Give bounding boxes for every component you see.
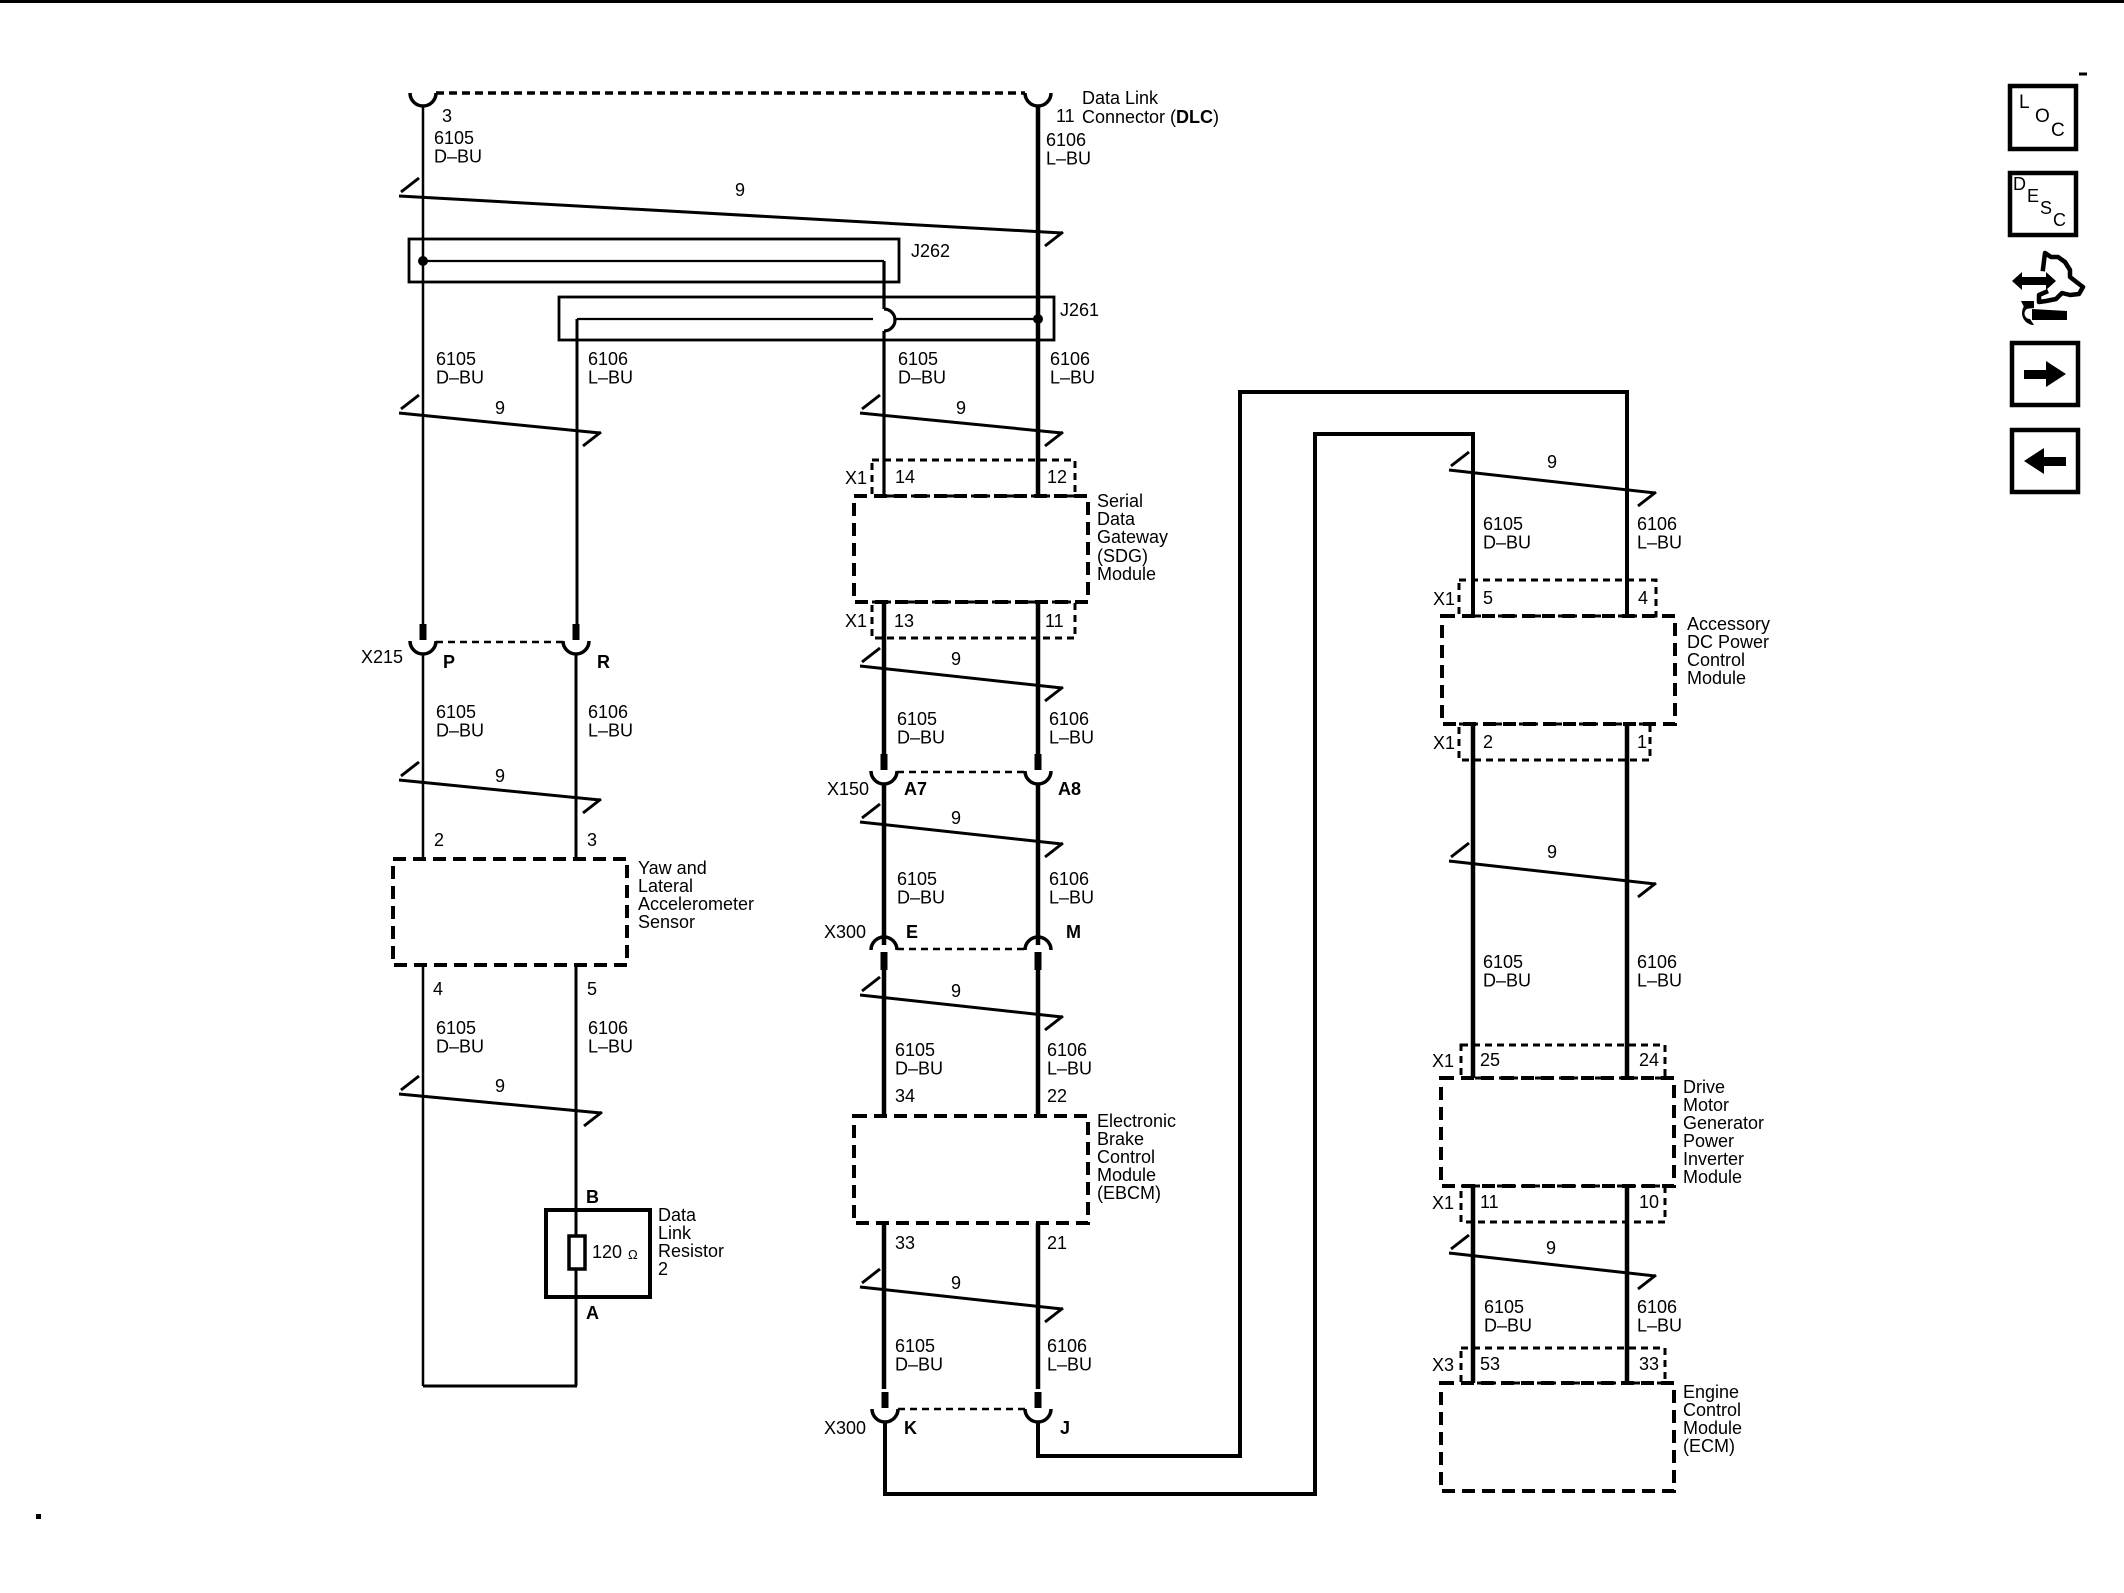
svg-text:6106: 6106 [1049,869,1089,889]
label Serial Data Gateway (SDG) Module [1097,491,1168,584]
module Yaw and Lateral Accelerometer Sensor [393,859,627,965]
label 6105 D-BU (below X150) [897,869,945,908]
svg-text:4: 4 [433,979,443,999]
X300 pin M [1066,922,1081,942]
ECM pin 53 [1480,1354,1500,1374]
svg-text:D–BU: D–BU [1483,971,1531,991]
module Serial Data Gateway (SDG) [854,496,1088,602]
X150 pin A8 [1058,779,1081,799]
svg-text:R: R [597,652,610,672]
svg-text:Module: Module [1097,1165,1156,1185]
SDG pin 12 [1047,467,1067,487]
svg-text:A7: A7 [904,779,927,799]
svg-text:9: 9 [1547,452,1557,472]
svg-text:6106: 6106 [1049,709,1089,729]
svg-text:L–BU: L–BU [1637,533,1682,553]
SDG pin 11 [1045,611,1064,631]
twisted pair symbol (below SDG) [860,648,1063,701]
X150 pin A7 [904,779,927,799]
svg-text:6106: 6106 [1047,1336,1087,1356]
svg-text:X1: X1 [845,468,867,488]
svg-text:C: C [2051,120,2065,141]
svg-text:X3: X3 [1432,1355,1454,1375]
X215 pin R [597,652,610,672]
twisted pair symbol (right col bottom) [1449,1235,1656,1289]
EBCM pin 34 [895,1086,915,1106]
svg-text:9: 9 [1547,842,1557,862]
twisted pair symbol (below X150) [860,804,1063,857]
svg-text:10: 10 [1639,1192,1659,1212]
svg-text:2: 2 [434,830,444,850]
X300 pin E [906,922,918,942]
svg-text:6105: 6105 [895,1336,935,1356]
wire 6106 from splice J261 to X215 pin R [576,319,579,624]
label 6105 D-BU (below X215) [436,702,484,741]
label Drive Motor Generator Power Inverter Module [1683,1077,1764,1187]
label 6105 D-BU (below yaw) [436,1018,484,1057]
svg-text:2: 2 [658,1259,668,1279]
svg-text:Engine: Engine [1683,1382,1739,1402]
svg-text:11: 11 [1480,1192,1499,1212]
svg-text:Electronic: Electronic [1097,1111,1176,1131]
icon wiring repair (arrows and wrench) [2012,253,2083,325]
svg-text:L–BU: L–BU [1047,1059,1092,1079]
yaw sensor pin 2 [434,830,444,850]
svg-text:O: O [2035,106,2050,127]
label 6106 L-BU (above EBCM) [1047,1040,1092,1079]
Drive Motor pin row X1 (25/24) [1461,1045,1665,1078]
svg-text:Resistor: Resistor [658,1241,724,1261]
label 6106 L-BU (mid col) [1050,349,1095,388]
wire 6106 Drive Motor pin 10 to ECM pin 33 [1625,1186,1630,1383]
svg-text:Connector (DLC): Connector (DLC) [1082,107,1219,127]
svg-text:Accessory: Accessory [1687,614,1770,634]
X300 pin K [904,1418,917,1438]
svg-text:D–BU: D–BU [1484,1316,1532,1336]
label X1 (Drive Motor bottom) [1432,1193,1454,1213]
svg-text:Module: Module [1683,1418,1742,1438]
Drive Motor pin row X1 (11/10) [1461,1186,1665,1222]
icon DESC box [2010,173,2076,235]
label X1 (Accessory bottom) [1433,733,1455,753]
DLC pin 11 [1056,106,1075,126]
svg-text:D–BU: D–BU [434,147,482,167]
Accessory pin row X1 (5/4) [1459,580,1656,616]
svg-text:6106: 6106 [1046,130,1086,150]
svg-text:Control: Control [1683,1400,1741,1420]
wire 6106 Accessory pin 1 to Drive Motor pin 24 [1625,724,1630,1078]
label X150 [827,779,869,799]
svg-text:Drive: Drive [1683,1077,1725,1097]
label 9 (left col upper pair) [495,398,505,418]
wire 6106 SDG pin 11 to X150 A8 [1036,602,1041,755]
svg-text:11: 11 [1056,106,1075,126]
label 120 ohm [592,1242,638,1262]
svg-text:L–BU: L–BU [1050,368,1095,388]
svg-text:J: J [1060,1418,1070,1438]
resistor R 120 ohm (Data Link Resistor) [546,1210,650,1297]
svg-text:11: 11 [1045,611,1064,631]
connector X300 (K/J) [872,1392,1051,1422]
wire 6105 X215 P to yaw sensor pin 2 [422,654,425,859]
svg-text:9: 9 [951,1273,961,1293]
svg-text:J262: J262 [911,241,950,261]
label X300 (E/M) [824,922,866,942]
module Electronic Brake Control Module (EBCM) [854,1116,1088,1223]
svg-text:X1: X1 [1432,1051,1454,1071]
module Accessory DC Power Control Module [1442,616,1675,724]
svg-text:J261: J261 [1060,300,1099,320]
svg-text:53: 53 [1480,1354,1500,1374]
label 9 (right col mid) [1547,842,1557,862]
Drive Motor pin 24 [1639,1050,1659,1070]
svg-text:(SDG): (SDG) [1097,546,1148,566]
svg-text:6105: 6105 [1483,952,1523,972]
svg-text:Module: Module [1097,564,1156,584]
X215 pin P [443,652,455,672]
svg-text:D–BU: D–BU [436,1037,484,1057]
svg-text:9: 9 [956,398,966,418]
svg-text:Control: Control [1687,650,1745,670]
label 6106 L-BU (right col top) [1637,514,1682,553]
svg-text:X1: X1 [1433,733,1455,753]
wire 6105 EBCM pin 33 to X300 K [882,1223,887,1389]
svg-text:Power: Power [1683,1131,1734,1151]
yaw sensor pin 5 [587,979,597,999]
svg-text:S: S [2040,198,2052,218]
svg-text:6106: 6106 [588,702,628,722]
label X1 (Accessory top) [1433,589,1455,609]
svg-text:L–BU: L–BU [1049,728,1094,748]
wire 6105 X300 K to Accessory module pin 5 (bus route) [885,434,1473,1494]
svg-text:13: 13 [894,611,914,631]
svg-text:21: 21 [1047,1233,1067,1253]
wire 6106 yaw pin 5 to resistor [575,965,578,1386]
svg-text:A: A [586,1303,599,1323]
svg-text:Module: Module [1683,1167,1742,1187]
SDG pin 13 [894,611,914,631]
svg-text:Motor: Motor [1683,1095,1729,1115]
svg-text:6105: 6105 [436,349,476,369]
svg-text:Yaw and: Yaw and [638,858,707,878]
connector DLC (Data Link Connector) outline [410,93,1051,106]
svg-text:1: 1 [1637,732,1647,752]
svg-text:Generator: Generator [1683,1113,1764,1133]
label X1 (Drive Motor top) [1432,1051,1454,1071]
svg-text:D–BU: D–BU [436,721,484,741]
svg-text:34: 34 [895,1086,915,1106]
svg-text:6106: 6106 [1637,1297,1677,1317]
label X300 (K/J) [824,1418,866,1438]
svg-text:6105: 6105 [897,709,937,729]
connector X150 [871,754,1051,784]
SDG pin row X1 (13/11) [872,602,1075,638]
svg-text:P: P [443,652,455,672]
svg-text:33: 33 [895,1233,915,1253]
svg-text:6106: 6106 [588,349,628,369]
wire 6106 from DLC pin 11 through J261 to SDG pin 12 [1036,106,1041,496]
label 6106 L-BU (right col mid) [1637,952,1682,991]
svg-text:9: 9 [495,766,505,786]
yaw sensor pin 3 [587,830,597,850]
svg-text:Brake: Brake [1097,1129,1144,1149]
svg-text:L: L [2019,92,2030,113]
label X215 [361,647,403,667]
svg-text:Link: Link [658,1223,692,1243]
label 6106 L-BU (left col) [588,349,633,388]
splice J262 [409,239,899,282]
twisted pair symbol (right col top) [1449,452,1656,506]
svg-text:D–BU: D–BU [897,888,945,908]
svg-text:D: D [2013,174,2026,194]
svg-text:6105: 6105 [434,128,474,148]
label J262 [911,241,950,261]
Accessory pin 2 [1483,732,1493,752]
svg-text:9: 9 [735,180,745,200]
svg-text:Inverter: Inverter [1683,1149,1744,1169]
svg-text:6105: 6105 [1483,514,1523,534]
svg-text:Lateral: Lateral [638,876,693,896]
wire bottom loop left column [423,1385,577,1388]
svg-text:B: B [586,1187,599,1207]
wire 6105 SDG pin 13 to X150 A7 [882,602,887,755]
svg-text:L–BU: L–BU [588,721,633,741]
label 9 (right col bottom) [1546,1238,1556,1258]
svg-text:Module: Module [1687,668,1746,688]
Drive Motor pin 25 [1480,1050,1500,1070]
svg-text:Control: Control [1097,1147,1155,1167]
EBCM pin 33 [895,1233,915,1253]
label 6105 D-BU (left col) [436,349,484,388]
twisted pair symbol (below EBCM) [860,1269,1063,1322]
label 6105 D-BU (mid col) [898,349,946,388]
svg-text:L–BU: L–BU [588,368,633,388]
label 6105 D-BU (right col mid) [1483,952,1531,991]
svg-text:6105: 6105 [436,1018,476,1038]
svg-text:D–BU: D–BU [1483,533,1531,553]
label 6105 D-BU (right col top) [1483,514,1531,553]
Accessory pin row X1 (2/1) [1459,724,1650,760]
X300 pin J [1060,1418,1070,1438]
label X3 (ECM) [1432,1355,1454,1375]
svg-text:E: E [906,922,918,942]
svg-text:A8: A8 [1058,779,1081,799]
svg-text:Ω: Ω [628,1247,638,1262]
svg-text:E: E [2027,186,2039,206]
svg-text:6106: 6106 [1637,514,1677,534]
Drive Motor pin 11 [1480,1192,1499,1212]
label 6105 D-BU (right col bottom) [1484,1297,1532,1336]
label 6105 D-BU (DLC pin 3) [434,128,482,167]
Accessory pin 1 [1637,732,1647,752]
svg-text:D–BU: D–BU [898,368,946,388]
svg-text:6106: 6106 [1050,349,1090,369]
label Accessory DC Power Control Module [1687,614,1770,688]
svg-text:14: 14 [895,467,915,487]
label 6105 D-BU (above EBCM) [895,1040,943,1079]
svg-text:22: 22 [1047,1086,1067,1106]
svg-text:6105: 6105 [895,1040,935,1060]
svg-text:9: 9 [495,1076,505,1096]
svg-text:6105: 6105 [898,349,938,369]
SDG pin 14 [895,467,915,487]
svg-text:5: 5 [587,979,597,999]
label Engine Control Module (ECM) [1683,1382,1742,1456]
label 6106 L-BU (right col bottom) [1637,1297,1682,1336]
svg-text:X150: X150 [827,779,869,799]
svg-text:6105: 6105 [436,702,476,722]
svg-text:Data Link: Data Link [1082,88,1159,108]
label J261 [1060,300,1099,320]
svg-text:D–BU: D–BU [436,368,484,388]
Drive Motor pin 10 [1639,1192,1659,1212]
module Drive Motor Generator Power Inverter Module [1441,1078,1674,1186]
svg-text:Data: Data [1097,509,1136,529]
svg-text:6105: 6105 [897,869,937,889]
svg-text:L–BU: L–BU [1637,971,1682,991]
wire 6105 yaw pin 4 down [422,965,425,1386]
label 9 (above resistor) [495,1076,505,1096]
twisted pair symbol (mid col upper) [860,395,1063,446]
svg-text:6106: 6106 [588,1018,628,1038]
svg-text:X1: X1 [845,611,867,631]
svg-text:9: 9 [951,808,961,828]
label Electronic Brake Control Module (EBCM) [1097,1111,1176,1203]
twisted pair symbol (DLC) [399,178,1063,246]
svg-text:3: 3 [442,106,452,126]
label 9 (above EBCM) [951,981,961,1001]
module Engine Control Module (ECM) [1441,1383,1674,1491]
top border rule [0,0,2124,3]
label 9 (right col top) [1547,452,1557,472]
wire 6105 X300 E to EBCM pin 34 [882,970,887,1116]
resistor pin B [586,1187,599,1207]
svg-text:3: 3 [587,830,597,850]
svg-text:12: 12 [1047,467,1067,487]
label 9 (DLC twisted pair) [735,180,745,200]
label 9 (mid col upper pair) [956,398,966,418]
svg-text:L–BU: L–BU [1637,1316,1682,1336]
ECM pin row X3 (53/33) [1461,1348,1665,1383]
svg-text:Accelerometer: Accelerometer [638,894,754,914]
wire 6105 Drive Motor pin 11 to ECM pin 53 [1471,1186,1476,1383]
splice J261 [559,297,1054,340]
icon forward arrow box [2012,343,2078,405]
svg-text:L–BU: L–BU [1047,1355,1092,1375]
svg-text:DC Power: DC Power [1687,632,1769,652]
svg-text:Serial: Serial [1097,491,1143,511]
Accessory pin 5 [1483,588,1493,608]
svg-text:25: 25 [1480,1050,1500,1070]
svg-text:4: 4 [1638,588,1648,608]
svg-text:M: M [1066,922,1081,942]
EBCM pin 21 [1047,1233,1067,1253]
connector X300 (E/M) [871,937,1051,970]
Accessory pin 4 [1638,588,1648,608]
svg-text:120: 120 [592,1242,622,1262]
stray mark top right [2079,73,2087,76]
svg-text:6105: 6105 [1484,1297,1524,1317]
EBCM pin 22 [1047,1086,1067,1106]
svg-text:X300: X300 [824,922,866,942]
label 9 (above yaw sensor) [495,766,505,786]
svg-text:33: 33 [1639,1354,1659,1374]
label 6106 L-BU (below X215) [588,702,633,741]
svg-text:D–BU: D–BU [895,1355,943,1375]
wire 6106 X150 A8 to X300 M [1036,784,1041,945]
label Data Link Resistor 2 [658,1205,724,1279]
svg-text:L–BU: L–BU [1046,149,1091,169]
icon LOC box [2010,86,2076,149]
svg-text:24: 24 [1639,1050,1659,1070]
twisted pair symbol (above resistor) [399,1076,602,1126]
label Yaw and Lateral Accelerometer Sensor [638,858,754,932]
svg-text:Gateway: Gateway [1097,527,1168,547]
wire 6106 X300 M to EBCM pin 22 [1036,970,1041,1116]
wire 6106 X300 J to Accessory module pin 4 (bus route) [1038,392,1627,1456]
svg-text:5: 5 [1483,588,1493,608]
svg-text:(EBCM): (EBCM) [1097,1183,1161,1203]
label 6105 D-BU (below EBCM) [895,1336,943,1375]
label 6106 L-BU (below X150) [1049,869,1094,908]
ECM pin 33 [1639,1354,1659,1374]
label 9 (below EBCM) [951,1273,961,1293]
svg-text:X300: X300 [824,1418,866,1438]
label 9 (below SDG) [951,649,961,669]
svg-text:L–BU: L–BU [1049,888,1094,908]
wire 6105 X150 A7 to X300 E [882,784,887,945]
label X1 (SDG top) [845,468,867,488]
label 6106 L-BU (below EBCM) [1047,1336,1092,1375]
wire 6105 from DLC pin 3 to X215 pin P [422,106,425,624]
label 6106 L-BU (DLC pin 11) [1046,130,1091,169]
svg-text:D–BU: D–BU [897,728,945,748]
resistor pin A [586,1303,599,1323]
yaw sensor pin 4 [433,979,443,999]
twisted pair symbol (above yaw sensor) [399,762,601,813]
svg-text:(ECM): (ECM) [1683,1436,1735,1456]
svg-text:X215: X215 [361,647,403,667]
twisted pair symbol (right col mid) [1449,843,1656,897]
twisted pair symbol (above EBCM) [860,977,1063,1030]
svg-text:6106: 6106 [1637,952,1677,972]
svg-text:X1: X1 [1432,1193,1454,1213]
label 6105 D-BU (below SDG) [897,709,945,748]
svg-text:6106: 6106 [1047,1040,1087,1060]
svg-text:C: C [2053,210,2066,230]
DLC pin 3 [442,106,452,126]
wire 6105 Accessory pin 2 to Drive Motor pin 25 [1471,724,1476,1078]
stray mark bottom left [36,1514,41,1519]
icon back arrow box [2012,430,2078,492]
label Data Link Connector (DLC) [1082,88,1219,127]
svg-text:2: 2 [1483,732,1493,752]
twisted pair symbol (left col upper) [399,395,601,446]
svg-text:Data: Data [658,1205,697,1225]
svg-text:9: 9 [951,981,961,1001]
wire 6106 EBCM pin 21 to X300 J [1036,1223,1041,1389]
label 6106 L-BU (below yaw) [588,1018,633,1057]
wire 6105 from splice J262 to SDG pin 14 (hop over J261 wire) [884,261,895,496]
label X1 (SDG bottom) [845,611,867,631]
connector X215 [410,624,589,654]
SDG pin row X1 (14/12) [872,460,1075,496]
svg-text:Sensor: Sensor [638,912,695,932]
label 6106 L-BU (below SDG) [1049,709,1094,748]
svg-text:9: 9 [951,649,961,669]
svg-text:L–BU: L–BU [588,1037,633,1057]
wire 6106 X215 R to yaw sensor pin 3 [575,654,578,859]
